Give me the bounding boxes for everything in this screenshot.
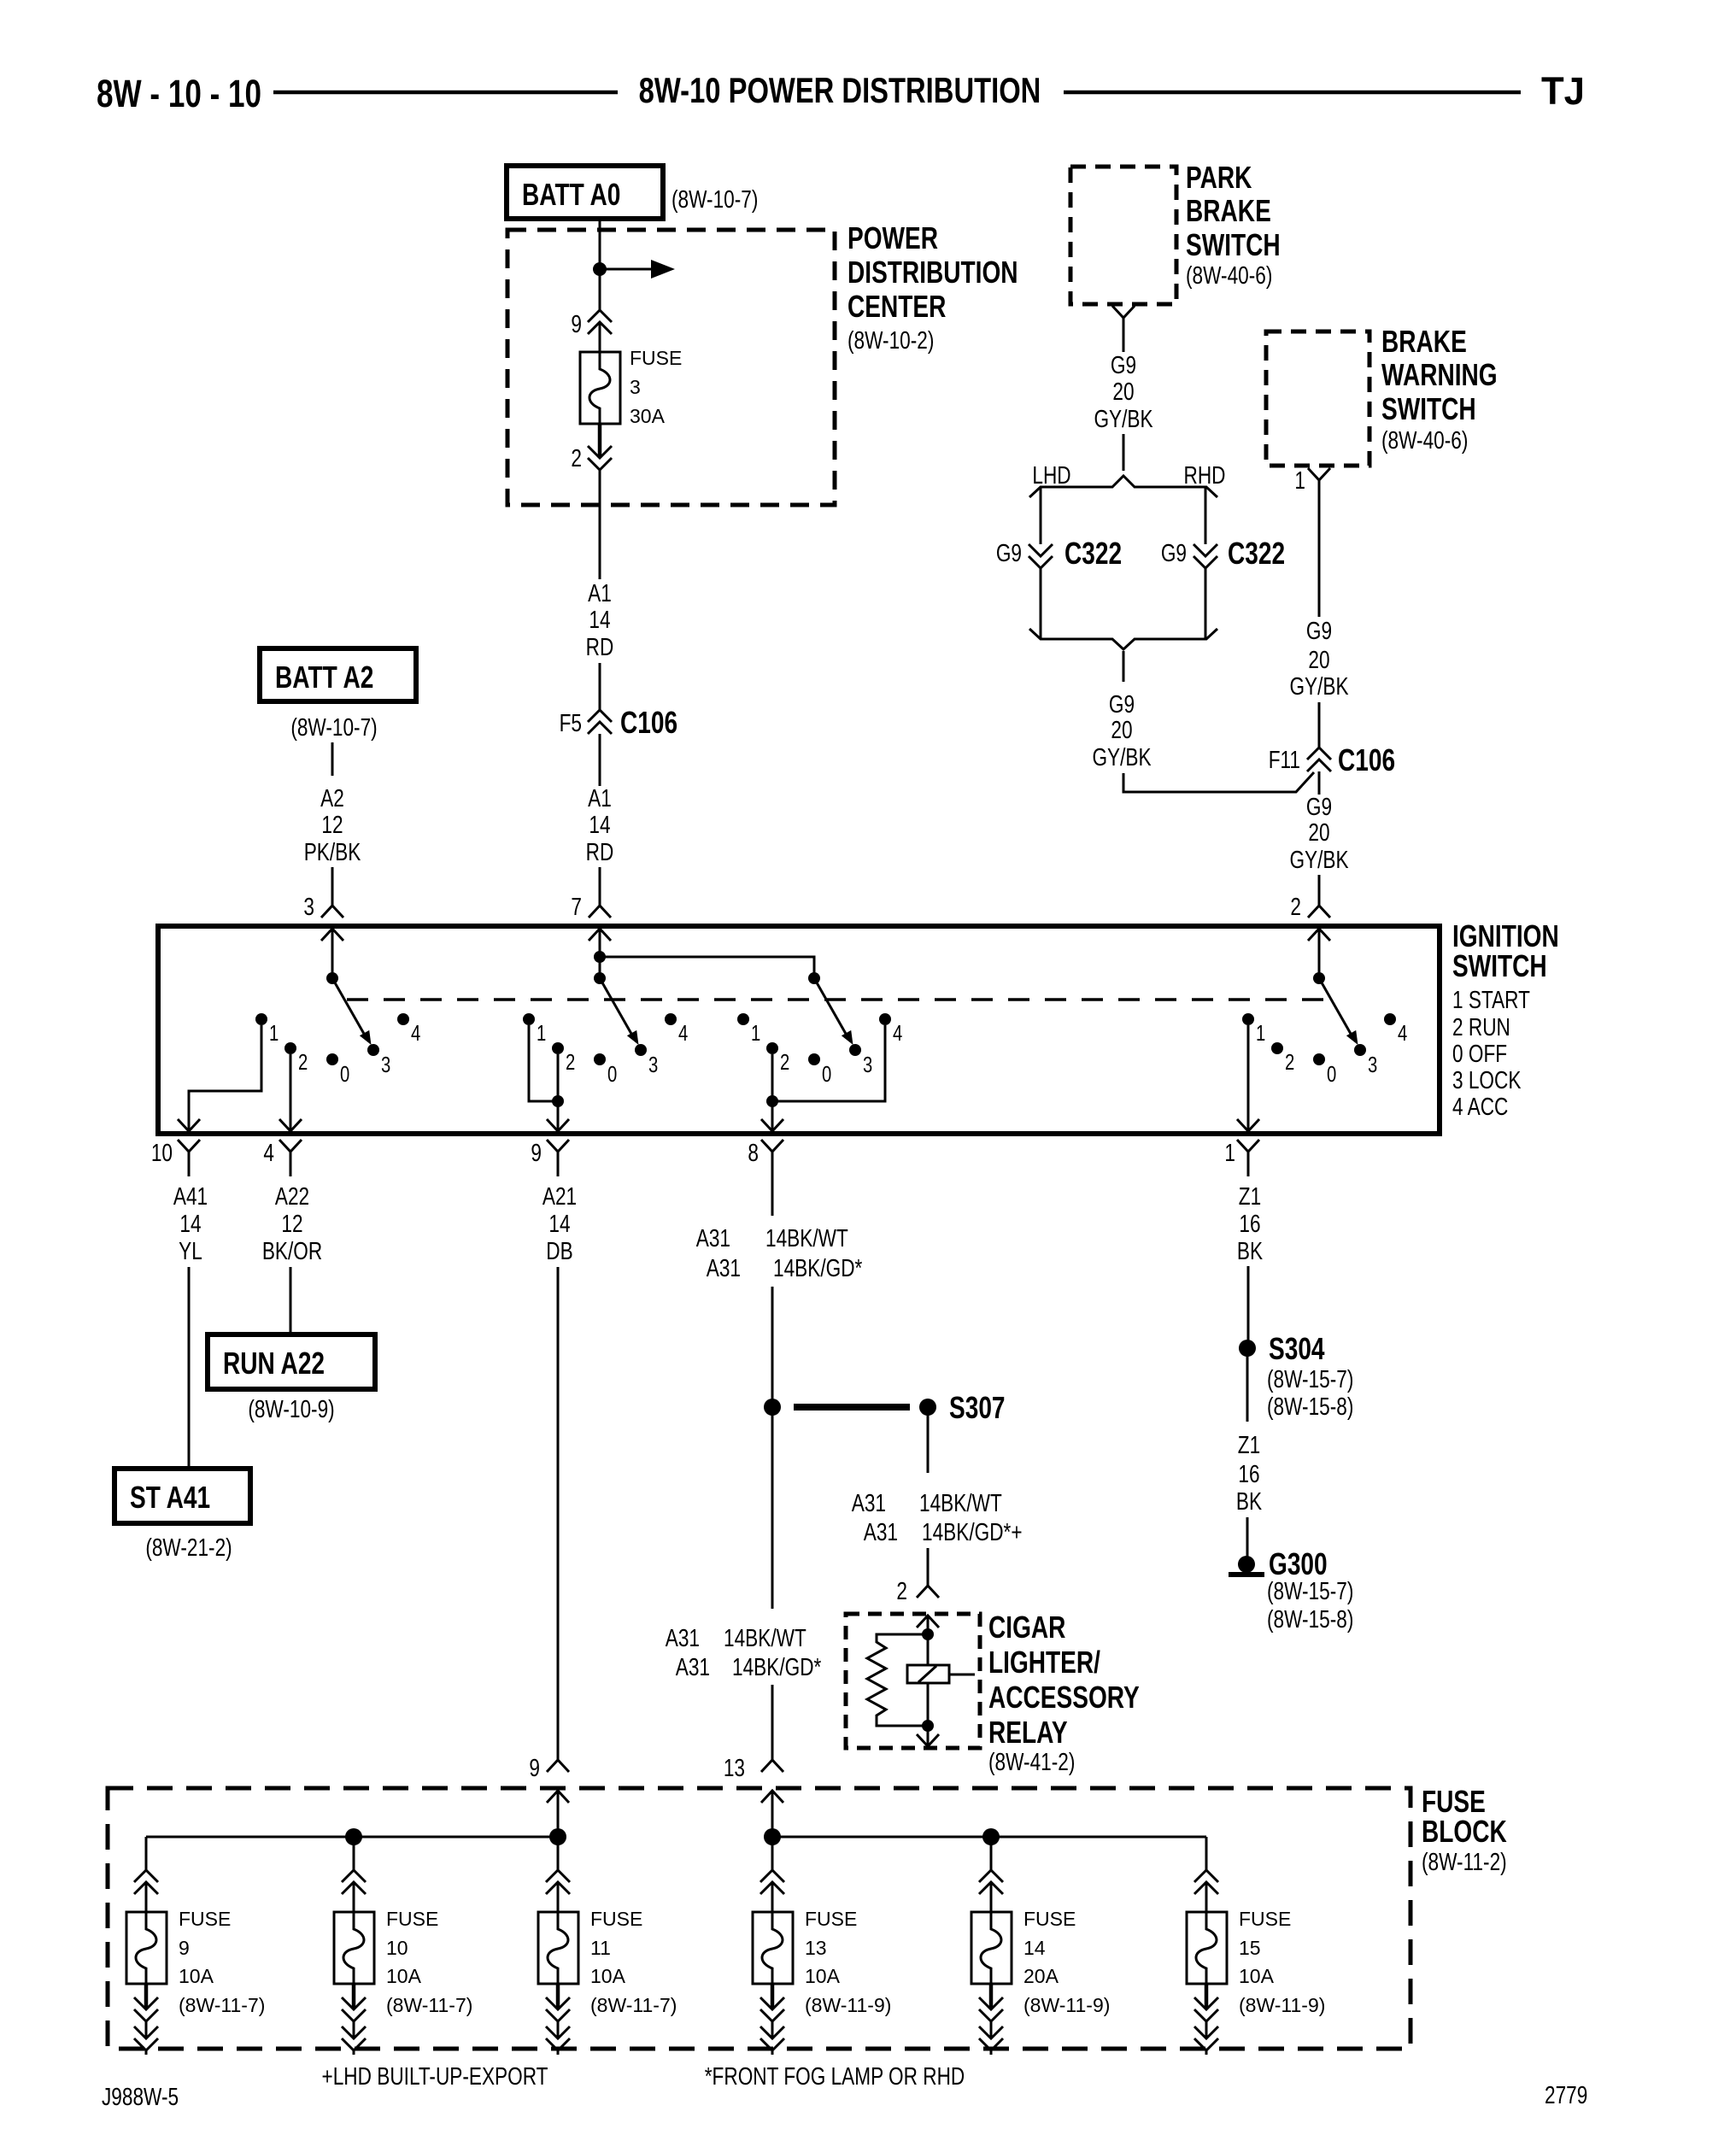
svg-text:3: 3 — [1368, 1053, 1377, 1077]
power distribution center label — [847, 221, 1018, 355]
contact 0 — [594, 1053, 617, 1087]
svg-text:GY/BK: GY/BK — [1092, 742, 1152, 771]
wire — [145, 2021, 148, 2037]
svg-text:LIGHTER/: LIGHTER/ — [988, 1645, 1100, 1680]
connector into ignition switch pin 3 — [321, 906, 343, 918]
wire stub — [145, 2050, 148, 2055]
wire merged G9 — [1123, 651, 1125, 682]
svg-text:A31: A31 — [864, 1517, 898, 1545]
wire junction to contact 4 — [772, 1025, 885, 1101]
svg-text:GY/BK: GY/BK — [1094, 404, 1153, 432]
merge splice brace — [1029, 629, 1217, 649]
svg-text:4: 4 — [893, 1021, 902, 1046]
svg-text:(8W-15-8): (8W-15-8) — [1267, 1604, 1353, 1633]
svg-text:30A: 30A — [630, 405, 666, 427]
node RUN A22 box — [208, 1334, 375, 1389]
header rule right — [1064, 91, 1521, 95]
svg-text:(8W-11-9): (8W-11-9) — [805, 1994, 891, 2016]
wire — [599, 322, 601, 352]
splice S307 — [764, 1391, 1006, 1425]
fuse 10 10A — [334, 1912, 374, 1984]
wire — [771, 1882, 774, 1912]
svg-text:10A: 10A — [386, 1965, 422, 1987]
wire label A2 12 PK/BK — [304, 783, 361, 865]
svg-text:14BK/WT: 14BK/WT — [724, 1623, 806, 1651]
svg-text:3: 3 — [630, 376, 641, 398]
fuse block dashed box — [108, 1788, 1410, 2049]
svg-text:FUSE: FUSE — [386, 1908, 438, 1930]
wire label G9 20 GY/BK — [1289, 616, 1349, 700]
svg-text:(8W-10-7): (8W-10-7) — [672, 185, 758, 213]
wire — [1318, 702, 1321, 748]
svg-text:14: 14 — [179, 1209, 201, 1237]
fuse 11 10A — [538, 1912, 578, 1984]
svg-text:(8W-15-8): (8W-15-8) — [1267, 1392, 1353, 1420]
contact 1 — [255, 1013, 279, 1046]
terminal arrow output 9 — [547, 1119, 569, 1131]
wire label A22 12 BK/OR — [262, 1182, 322, 1264]
fuse 13 10A — [753, 1912, 793, 1984]
junction dot — [549, 1828, 566, 1845]
connector C322 RHD — [1193, 544, 1217, 568]
fuse block bus left — [146, 1836, 558, 1839]
svg-text:(8W-40-6): (8W-40-6) — [1186, 261, 1272, 289]
svg-text:(8W-11-7): (8W-11-7) — [179, 1994, 265, 2016]
splice S304 — [1239, 1332, 1353, 1421]
svg-text:0: 0 — [822, 1062, 831, 1087]
wire A31 upper — [771, 1176, 774, 1407]
wire — [599, 663, 601, 710]
svg-text:WARNING: WARNING — [1381, 358, 1498, 392]
svg-text:SWITCH: SWITCH — [1452, 949, 1547, 983]
contact 2 — [766, 1042, 789, 1075]
wire A1 below C106 — [599, 734, 601, 786]
wire G9 — [1123, 343, 1125, 352]
park brake switch label — [1186, 161, 1281, 290]
contact 2 — [284, 1042, 308, 1075]
wire below fuse 10 — [352, 1984, 356, 2008]
svg-text:0: 0 — [607, 1062, 617, 1087]
svg-text:Z1: Z1 — [1239, 1182, 1261, 1210]
fuse F3 30A — [580, 352, 620, 424]
terminal arrow output 4 — [279, 1119, 302, 1131]
svg-text:DB: DB — [546, 1236, 572, 1264]
connector pin 2 of PDC — [588, 446, 612, 470]
svg-text:G9: G9 — [996, 538, 1022, 566]
ignition switch wiper START feed — [326, 972, 372, 1045]
svg-text:15: 15 — [1239, 1937, 1261, 1959]
wire G9 below C106 — [1318, 771, 1321, 795]
wire — [145, 1882, 148, 1912]
svg-text:FUSE: FUSE — [179, 1908, 231, 1930]
svg-text:14: 14 — [589, 605, 610, 633]
connector leaving fuse block — [546, 2026, 570, 2050]
wire below fuse 13 — [771, 1984, 775, 2008]
wire contact 2 to output 8 — [771, 1054, 774, 1129]
contact 4 — [665, 1013, 688, 1046]
wire label Z1 16 BK — [1236, 1430, 1263, 1515]
svg-text:4 ACC: 4 ACC — [1452, 1092, 1508, 1120]
svg-text:RHD: RHD — [1183, 460, 1225, 489]
svg-text:13: 13 — [805, 1937, 827, 1959]
svg-text:BRAKE: BRAKE — [1186, 194, 1271, 228]
ignition switch wiper brake warning feed — [1313, 972, 1358, 1045]
svg-text:10: 10 — [151, 1138, 173, 1166]
wire label A1 14 RD — [586, 783, 614, 865]
fuse 10 value label — [386, 1908, 472, 2016]
connector above fuse 13 — [760, 1870, 784, 1894]
connector above fuse 11 — [546, 1870, 570, 1894]
wire — [1318, 875, 1321, 906]
connector below fuse 14 — [979, 1997, 1003, 2021]
svg-text:G9: G9 — [1306, 792, 1332, 820]
svg-text:2 RUN: 2 RUN — [1452, 1012, 1510, 1041]
svg-text:2: 2 — [571, 443, 582, 472]
connector leaving fuse block — [342, 2026, 366, 2050]
svg-text:RELAY: RELAY — [988, 1716, 1068, 1750]
wire — [1246, 1517, 1249, 1557]
junction dot — [922, 1628, 934, 1640]
svg-text:C322: C322 — [1064, 537, 1122, 571]
svg-text:(8W-10-2): (8W-10-2) — [847, 326, 934, 354]
brake warning switch dashed box — [1266, 331, 1369, 466]
svg-text:TJ: TJ — [1541, 70, 1585, 113]
svg-text:1: 1 — [1256, 1021, 1265, 1046]
svg-text:0: 0 — [340, 1062, 349, 1087]
svg-text:A22: A22 — [275, 1182, 309, 1210]
wire contact 1 to output 10 — [189, 1025, 261, 1129]
wire below fuse — [598, 425, 602, 458]
svg-text:BK: BK — [1237, 1236, 1264, 1264]
contact 0 — [326, 1053, 349, 1087]
fuse 11 value label — [590, 1908, 677, 2016]
junction dot — [982, 1828, 1000, 1845]
connector into fuse block pin 13 — [761, 1760, 783, 1772]
ganged wiper dashed line — [347, 998, 1326, 1001]
wire label A1 14 RD — [586, 578, 614, 660]
wire bus to fuse 15 — [1205, 1837, 1208, 1870]
connector below fuse 10 — [342, 1997, 366, 2021]
svg-text:8W - 10 - 10: 8W - 10 - 10 — [97, 72, 261, 115]
svg-text:C322: C322 — [1228, 537, 1285, 571]
connector leaving fuse block — [760, 2026, 784, 2050]
connector into fuse block pin 9 — [547, 1760, 569, 1772]
fuse F3 value label — [630, 347, 682, 427]
ground G300 — [1229, 1547, 1353, 1633]
svg-text:G9: G9 — [1109, 689, 1135, 718]
wire G9 — [1318, 505, 1321, 617]
svg-text:GY/BK: GY/BK — [1289, 845, 1349, 873]
svg-text:13: 13 — [724, 1753, 745, 1781]
LHD/RHD splice brace — [1029, 476, 1217, 497]
wire A21 to fuse block — [557, 1267, 560, 1760]
svg-text:10A: 10A — [1239, 1965, 1275, 1987]
svg-text:BK/OR: BK/OR — [262, 1236, 322, 1264]
svg-text:SWITCH: SWITCH — [1186, 228, 1281, 262]
wire — [990, 2021, 993, 2037]
wire RHD branch — [1205, 487, 1207, 544]
svg-text:(8W-11-7): (8W-11-7) — [386, 1994, 472, 2016]
ignition switch label — [1452, 919, 1559, 1121]
svg-text:2: 2 — [298, 1050, 308, 1075]
connector below brake warning switch — [1308, 468, 1330, 505]
wire stub — [990, 2050, 993, 2055]
svg-text:C106: C106 — [1338, 743, 1395, 777]
svg-text:4: 4 — [1398, 1021, 1407, 1046]
wire label A21 14 DB — [542, 1182, 577, 1264]
wire below fuse 9 — [144, 1984, 149, 2008]
svg-text:(8W-40-6): (8W-40-6) — [1381, 425, 1468, 454]
connector into relay pin 2 — [917, 1586, 939, 1598]
svg-text:20: 20 — [1308, 645, 1329, 673]
relay terminal arrow pin 2 — [917, 1616, 939, 1628]
wire label Z1 16 BK — [1237, 1182, 1264, 1264]
svg-text:8W-10 POWER DISTRIBUTION: 8W-10 POWER DISTRIBUTION — [639, 70, 1041, 110]
wire to wiper pivot — [1318, 929, 1321, 977]
fuse 15 value label — [1239, 1908, 1325, 2016]
ignition switch box — [158, 926, 1440, 1134]
junction dot — [922, 1720, 934, 1732]
wire link to third wiper — [600, 957, 814, 978]
svg-text:20: 20 — [1308, 818, 1329, 846]
connector into ignition switch pin 2 — [1308, 906, 1330, 918]
connector output pin 9 — [547, 1140, 569, 1176]
contact 2 — [1271, 1042, 1294, 1075]
svg-text:F5: F5 — [560, 708, 582, 736]
svg-text:C106: C106 — [620, 706, 677, 740]
wire to bus — [557, 1791, 560, 1837]
ignition switch wiper RUN feed — [594, 972, 639, 1045]
wire — [771, 1685, 774, 1760]
power distribution center dashed box — [507, 230, 835, 505]
node BATT A0 feed box — [507, 166, 663, 219]
svg-text:LHD: LHD — [1032, 460, 1070, 489]
wire — [557, 2021, 560, 2037]
svg-text:(8W-10-7): (8W-10-7) — [290, 713, 377, 741]
svg-text:SWITCH: SWITCH — [1381, 392, 1476, 426]
wire label G9 20 GY/BK — [1289, 792, 1349, 873]
wire — [1123, 434, 1125, 471]
svg-text:G9: G9 — [1306, 616, 1332, 644]
svg-text:RUN A22: RUN A22 — [223, 1346, 325, 1381]
contact 3 — [367, 1044, 390, 1077]
svg-text:3 LOCK: 3 LOCK — [1452, 1065, 1522, 1094]
connector above fuse 10 — [342, 1870, 366, 1894]
svg-text:10: 10 — [386, 1937, 408, 1959]
contact 4 — [397, 1013, 420, 1046]
svg-text:16: 16 — [1238, 1459, 1259, 1487]
svg-text:2: 2 — [1290, 892, 1301, 920]
junction dot — [766, 1095, 778, 1107]
wire — [1205, 1882, 1208, 1912]
contact 1 — [737, 1013, 760, 1046]
svg-text:9: 9 — [531, 1138, 542, 1166]
svg-text:12: 12 — [281, 1209, 302, 1237]
junction dot — [345, 1828, 362, 1845]
svg-text:A31: A31 — [666, 1623, 700, 1651]
wire contact 2 to output 4 — [290, 1054, 292, 1129]
ignition switch terminal arrow pin 2 — [1308, 929, 1330, 941]
svg-text:(8W-11-9): (8W-11-9) — [1239, 1994, 1325, 2016]
svg-text:10A: 10A — [179, 1965, 214, 1987]
svg-text:A2: A2 — [320, 783, 344, 812]
contact 3 — [849, 1044, 872, 1077]
wire below C322 LHD — [1040, 568, 1042, 639]
svg-text:10A: 10A — [805, 1965, 841, 1987]
connector below fuse 11 — [546, 1997, 570, 2021]
svg-text:4: 4 — [678, 1021, 688, 1046]
brake warning switch label — [1381, 325, 1498, 455]
wire contact 1 to output 1 — [1247, 1025, 1250, 1129]
connector C106 cavity F11 — [1307, 748, 1331, 771]
svg-text:9: 9 — [571, 309, 582, 337]
wire stub — [771, 2050, 774, 2055]
wire label G9 20 GY/BK — [1094, 350, 1153, 432]
wire from BATT A2 — [331, 742, 334, 776]
svg-text:20A: 20A — [1023, 1965, 1059, 1987]
junction dot — [593, 262, 607, 276]
wire stub — [353, 2050, 355, 2055]
svg-text:S304: S304 — [1269, 1332, 1325, 1366]
svg-text:F11: F11 — [1269, 745, 1300, 773]
wire below fuse 15 — [1205, 1984, 1209, 2008]
fuse 13 value label — [805, 1908, 891, 2016]
svg-text:PARK: PARK — [1186, 161, 1252, 195]
wire below fuse 14 — [989, 1984, 994, 2008]
svg-text:4: 4 — [411, 1021, 420, 1046]
park brake switch dashed box — [1070, 167, 1176, 304]
ignition switch wiper ACC feed — [808, 972, 853, 1045]
fuse block bus right — [772, 1836, 1206, 1839]
wire label A31 14BK/WT A31 14BK/GD* — [666, 1623, 822, 1680]
connector below fuse 9 — [134, 1997, 158, 2021]
svg-text:3: 3 — [303, 892, 314, 920]
svg-text:A31: A31 — [676, 1652, 710, 1680]
svg-text:A21: A21 — [542, 1182, 577, 1210]
svg-text:CIGAR: CIGAR — [988, 1610, 1065, 1645]
svg-text:FUSE: FUSE — [805, 1908, 857, 1930]
wire from BATT A0 into PDC — [599, 219, 601, 310]
svg-text:A1: A1 — [588, 783, 612, 812]
svg-text:ACCESSORY: ACCESSORY — [988, 1680, 1140, 1715]
relay coil resistor — [867, 1634, 928, 1726]
cigar lighter accessory relay dashed box — [846, 1614, 980, 1748]
svg-text:+LHD BUILT-UP-EXPORT: +LHD BUILT-UP-EXPORT — [322, 2062, 548, 2090]
svg-text:ST A41: ST A41 — [130, 1481, 210, 1515]
fuse 14 value label — [1023, 1908, 1110, 2016]
header rule left — [273, 91, 618, 95]
svg-text:11: 11 — [590, 1937, 611, 1959]
connector output pin 1 — [1237, 1140, 1259, 1176]
connector leaving fuse block — [1194, 2026, 1218, 2050]
svg-text:14BK/GD*: 14BK/GD* — [773, 1253, 862, 1282]
relay output arrow — [917, 1726, 939, 1746]
wire contact 1 to junction — [529, 1025, 558, 1101]
connector into ignition switch pin 7 — [589, 906, 611, 918]
connector leaving fuse block — [979, 2026, 1003, 2050]
wire — [1205, 2021, 1208, 2037]
svg-text:1: 1 — [269, 1021, 279, 1046]
contact 0 — [1313, 1053, 1336, 1087]
node BATT A2 feed box — [260, 648, 416, 701]
wire Z1 — [1247, 1266, 1250, 1340]
svg-text:FUSE: FUSE — [630, 347, 682, 369]
svg-text:(8W-15-7): (8W-15-7) — [1267, 1364, 1353, 1393]
contact 1 — [523, 1013, 546, 1046]
wire A41 — [188, 1267, 191, 1469]
svg-text:A41: A41 — [173, 1182, 208, 1210]
fuse block terminal arrow pin 9 — [547, 1791, 569, 1803]
svg-text:1: 1 — [1294, 466, 1305, 494]
svg-text:16: 16 — [1239, 1209, 1260, 1237]
wire A1 leaving PDC — [599, 470, 601, 579]
svg-text:J988W-5: J988W-5 — [102, 2082, 179, 2110]
fuse 9 10A — [126, 1912, 167, 1984]
contact 4 — [879, 1013, 902, 1046]
wire bus to fuse 10 — [353, 1837, 355, 1870]
svg-text:0: 0 — [1327, 1062, 1336, 1087]
wire bus to fuse 13 — [771, 1837, 774, 1870]
svg-text:1: 1 — [537, 1021, 546, 1046]
svg-text:8: 8 — [748, 1138, 759, 1166]
svg-text:(8W-11-9): (8W-11-9) — [1023, 1994, 1110, 2016]
svg-text:G9: G9 — [1111, 350, 1136, 378]
ignition switch terminal arrow pin 3 — [321, 929, 343, 941]
connector below fuse 13 — [760, 1997, 784, 2021]
wire — [927, 1548, 930, 1586]
wire — [927, 1617, 930, 1634]
wire stub — [1205, 2050, 1208, 2055]
wire to bus — [771, 1791, 774, 1837]
svg-text:12: 12 — [321, 810, 343, 838]
svg-text:9: 9 — [179, 1937, 190, 1959]
svg-text:14BK/GD*: 14BK/GD* — [732, 1652, 821, 1680]
svg-text:20: 20 — [1112, 377, 1134, 405]
svg-text:0 OFF: 0 OFF — [1452, 1039, 1507, 1067]
wire — [353, 1882, 355, 1912]
wire stub — [557, 2050, 560, 2055]
svg-text:FUSE: FUSE — [1023, 1908, 1076, 1930]
svg-text:14: 14 — [589, 810, 610, 838]
svg-text:*FRONT FOG LAMP OR RHD: *FRONT FOG LAMP OR RHD — [705, 2062, 965, 2090]
svg-text:A31: A31 — [852, 1488, 886, 1516]
junction dot — [764, 1828, 781, 1845]
svg-text:GY/BK: GY/BK — [1289, 672, 1349, 700]
svg-text:4: 4 — [263, 1138, 274, 1166]
wire bus to fuse 9 — [145, 1837, 148, 1870]
connector output pin 10 — [178, 1140, 200, 1176]
wire bus to fuse 11 — [557, 1837, 560, 1870]
svg-text:14: 14 — [1023, 1937, 1046, 1959]
wire — [331, 867, 334, 906]
wire bus to fuse 14 — [990, 1837, 993, 1870]
terminal arrow output 1 — [1237, 1119, 1259, 1131]
wire below C322 RHD — [1205, 568, 1207, 639]
relay coil — [907, 1634, 975, 1726]
svg-text:14BK/GD*+: 14BK/GD*+ — [922, 1517, 1023, 1545]
wire dogleg to C106 — [1123, 772, 1314, 792]
svg-text:1 START: 1 START — [1452, 985, 1530, 1013]
svg-text:BK: BK — [1236, 1487, 1263, 1515]
terminal arrow output 10 — [178, 1119, 200, 1131]
svg-text:14BK/WT: 14BK/WT — [765, 1223, 848, 1252]
wire to wiper pivot — [331, 929, 334, 978]
svg-text:RD: RD — [586, 632, 614, 660]
svg-text:3: 3 — [863, 1053, 872, 1077]
fuse block terminal arrow pin 13 — [761, 1791, 783, 1803]
svg-text:10A: 10A — [590, 1965, 626, 1987]
contact 4 — [1384, 1013, 1407, 1046]
